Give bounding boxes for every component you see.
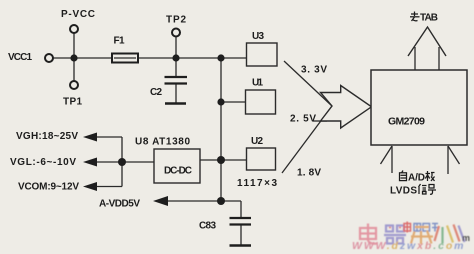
svg-text:1. 8V: 1. 8V (297, 168, 321, 179)
wire C2 top lead (175, 58, 177, 76)
svg-text:m: m (462, 233, 470, 243)
svg-text:TP2: TP2 (166, 15, 186, 26)
block arrow into GM2709 (321, 86, 372, 129)
wire DC-DC output to U2 feed (200, 159, 247, 161)
arrow VGL left arrowhead (83, 158, 97, 167)
ic GM2709 (371, 70, 467, 145)
regulator U1 (246, 90, 276, 114)
svg-text:VCOM:9~12V: VCOM:9~12V (18, 182, 79, 193)
capacitor C83 (230, 218, 252, 246)
svg-text:U8 AT1380: U8 AT1380 (135, 137, 190, 148)
arrow A-VDD5V arrowhead (153, 196, 168, 206)
svg-text:A/D: A/D (408, 173, 425, 184)
junction dot at TP2/C2 node (172, 54, 179, 61)
svg-text:LVDS: LVDS (390, 186, 417, 197)
label 去TAB (410, 12, 438, 24)
wire C2 bottom lead (175, 84, 177, 103)
svg-text:C83: C83 (199, 221, 216, 232)
junction dot bus U2/DC-DC node (217, 156, 225, 164)
dc-dc converter U8 (154, 149, 200, 183)
arrow VCOM left arrowhead (83, 182, 97, 191)
svg-text:F1: F1 (114, 36, 125, 47)
wire C83 top lead (240, 201, 242, 217)
wire C83 bottom lead (240, 225, 242, 245)
arrow VGH left arrowhead (83, 133, 97, 142)
arrow to TAB (hollow up arrow) (408, 27, 446, 70)
label LVDS信号 (390, 184, 436, 197)
svg-text:TP1: TP1 (63, 97, 82, 108)
svg-text:VGH:18~25V: VGH:18~25V (16, 131, 78, 142)
svg-text:1117×3: 1117×3 (237, 178, 277, 189)
junction dot bus top (217, 54, 224, 61)
terminal P-VCC (70, 25, 78, 33)
wire main bus horizontal right segment (138, 57, 247, 59)
watermark big char 4 (435, 225, 465, 244)
wire 2.5V stub (313, 120, 327, 122)
svg-text:C2: C2 (150, 87, 162, 98)
watermark big char 3 (411, 227, 433, 244)
terminal TP1 (70, 81, 78, 89)
wire TP2 lead (175, 37, 177, 58)
label 自A/D板 (400, 171, 435, 184)
junction dot VGL connector (118, 158, 126, 166)
svg-text:WWW.dzwxb.com: WWW.dzwxb.com (352, 240, 464, 252)
watermark small red char (404, 222, 411, 233)
capacitor C2 (165, 77, 188, 104)
watermark big char 1 (360, 224, 378, 244)
wire main bus horizontal left segment (54, 57, 113, 59)
svg-text:A-VDD5V: A-VDD5V (99, 199, 140, 210)
junction dot bus A-VDD5V node (217, 197, 225, 205)
wire U1 feed (221, 101, 245, 103)
svg-text:GM2709: GM2709 (388, 116, 425, 128)
junction dot bus U1 feed (217, 98, 224, 105)
arrow LVDS input left (381, 146, 393, 173)
svg-text:3. 3V: 3. 3V (301, 65, 327, 76)
terminal TP2 (172, 29, 180, 37)
wire VGL line to DC-DC input (95, 161, 154, 163)
svg-text:TAB: TAB (420, 13, 438, 24)
wire A-VDD5V line (167, 200, 241, 202)
wire VCOM line (95, 186, 122, 188)
svg-text:P-VCC: P-VCC (61, 9, 95, 20)
watermark big char 2 (384, 226, 406, 244)
svg-text:2. 5V: 2. 5V (290, 114, 316, 125)
svg-text:U2: U2 (251, 136, 263, 147)
wire 3.3V diagonal (284, 61, 332, 106)
svg-text:VCC1: VCC1 (8, 52, 32, 63)
watermark small blue chars (414, 224, 438, 232)
junction dot at VCC node (70, 54, 77, 61)
svg-text:U3: U3 (252, 31, 264, 42)
regulator U3 (247, 43, 278, 66)
fuse F1 (112, 54, 138, 63)
watermark big char 2 red accents (389, 227, 401, 229)
wire vertical bus (220, 58, 222, 201)
svg-text:VGL:-6~-10V: VGL:-6~-10V (10, 157, 76, 168)
wire 1.8V diagonal (282, 106, 332, 173)
wire P-VCC to TP1 vertical (73, 34, 75, 81)
terminal VCC1 (45, 54, 53, 62)
svg-text:DC-DC: DC-DC (164, 166, 192, 177)
wire vertical connector of VGH/VGL/VCOM (121, 137, 123, 187)
regulator U2 (247, 148, 276, 170)
arrow LVDS input right (448, 146, 460, 174)
svg-text:U1: U1 (252, 78, 263, 89)
wire VGH line (95, 136, 122, 138)
